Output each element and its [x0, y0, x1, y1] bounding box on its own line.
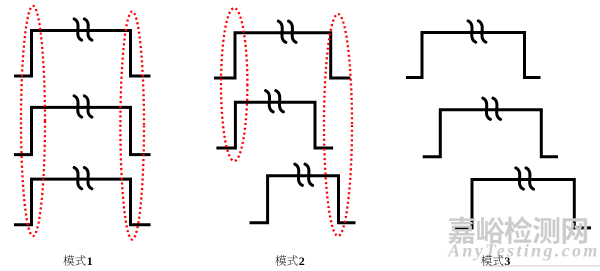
red dotted coupling ellipse, mode 2 left — [221, 8, 247, 161]
break marks on mode 2 cable 2 — [266, 91, 274, 112]
wire: mode 3 cable 3 — [454, 180, 592, 228]
wire: mode 1 cable 3 — [14, 179, 151, 225]
break marks on mode 3 cable 2 — [483, 98, 491, 119]
wire: mode 1 cable 1 — [14, 31, 151, 77]
label 模式1 — [63, 254, 92, 268]
faint gray rule bottom right — [486, 265, 600, 267]
break marks on mode 2 cable 1 — [278, 21, 286, 42]
wire: mode 3 cable 2 — [423, 110, 558, 157]
wire: mode 2 cable 2 — [216, 102, 333, 148]
break marks on mode 1 cable 2 — [74, 96, 82, 117]
red dotted coupling ellipse, mode 1 left — [21, 6, 45, 236]
red dotted coupling ellipse, mode 2 right — [324, 14, 352, 236]
break marks on mode 2 cable 3 — [295, 164, 303, 185]
break marks on mode 3 cable 3 — [516, 168, 524, 189]
red dotted coupling ellipse, mode 1 right — [120, 12, 144, 240]
wire: mode 2 cable 1 — [214, 33, 350, 78]
svg-text:1: 1 — [87, 254, 93, 268]
wire: mode 2 cable 3 — [250, 176, 356, 223]
break marks on mode 3 cable 1 — [468, 21, 476, 42]
wire: mode 3 cable 1 — [406, 33, 541, 78]
break marks on mode 1 cable 3 — [74, 168, 82, 189]
svg-text:3: 3 — [504, 254, 510, 268]
label 模式3 — [481, 254, 510, 268]
wire: mode 1 cable 2 — [14, 107, 151, 154]
watermark text 嘉峪检测网 (gray) — [448, 216, 587, 244]
svg-text:AnyTesting.com: AnyTesting.com — [447, 240, 600, 260]
break marks on mode 1 cable 1 — [74, 19, 82, 40]
label 模式2 — [275, 254, 304, 268]
svg-text:2: 2 — [299, 254, 305, 268]
